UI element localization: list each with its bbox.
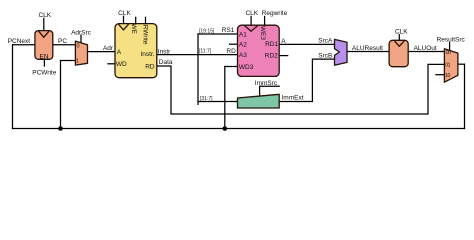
wire ImmSrc control L-stub [260, 86, 280, 96]
wire Instr 31:7 to Extend [198, 101, 238, 103]
svg-text:RD: RD [145, 63, 155, 70]
wire PCNext horizontal [13, 44, 35, 46]
wire WD stub [108, 63, 115, 65]
wire Instr 19:15 to A1 [198, 33, 238, 35]
clock triangle register file [245, 26, 258, 31]
svg-text:Regwrite: Regwrite [262, 10, 288, 17]
svg-text:CLK: CLK [245, 10, 258, 17]
svg-text:ALUResult: ALUResult [352, 45, 383, 52]
svg-text:Adr: Adr [103, 45, 114, 52]
svg-text:PC: PC [58, 38, 67, 45]
wire EN stem below PC [43, 59, 45, 66]
svg-text:CLK: CLK [118, 10, 131, 17]
svg-text:Instr.: Instr. [141, 51, 155, 58]
junction dot at WD3 column [223, 126, 228, 131]
svg-text:WD3: WD3 [239, 64, 254, 71]
svg-text:IRWrite: IRWrite [141, 23, 148, 45]
junction dot at AdrSrc column [58, 126, 63, 131]
wire ResultSrc control stem [449, 43, 451, 51]
wire bottom Result bus [13, 128, 465, 130]
svg-text:WD: WD [116, 61, 127, 68]
svg-text:[11:7]: [11:7] [199, 49, 212, 55]
svg-text:Instr: Instr [158, 48, 171, 55]
wire Instr bus memory RD to A3 [157, 54, 238, 56]
wire left vertical from Result bus up to PCNext [12, 45, 14, 129]
svg-text:A: A [117, 49, 122, 56]
wire PC to AdrSrc mux [53, 44, 76, 46]
svg-text:A1: A1 [239, 31, 247, 38]
wire RD2 stub [279, 55, 288, 57]
extend unit ImmExt (green) [238, 94, 280, 108]
svg-text:0: 0 [77, 44, 80, 50]
mux Result (trapezoid) [444, 49, 458, 82]
svg-text:EN: EN [39, 53, 48, 60]
svg-text:RD2: RD2 [265, 52, 278, 59]
register file (pink box) [238, 25, 280, 76]
svg-text:RS1: RS1 [222, 27, 235, 34]
wire IRWrite tick memory [145, 17, 147, 23]
wire result mux output stub [458, 63, 465, 65]
wire result mux input10 stub [436, 74, 445, 76]
svg-text:[31:7]: [31:7] [200, 96, 213, 102]
clock triangle ALUOut [394, 41, 404, 46]
svg-text:01: 01 [445, 63, 451, 69]
wire WD3 vertical from Result bus [224, 67, 226, 129]
svg-text:RD: RD [226, 48, 236, 55]
clock triangle memory [118, 24, 128, 30]
svg-text:CLK: CLK [38, 12, 51, 19]
wire CLK stem register file [250, 16, 252, 25]
svg-text:CLK: CLK [395, 28, 408, 35]
wire WD3 horizontal [225, 66, 238, 68]
wire Regwrite stem [264, 16, 266, 25]
svg-text:10: 10 [445, 73, 451, 79]
svg-text:PCWrite: PCWrite [32, 70, 56, 77]
clock triangle PC [39, 31, 49, 37]
svg-text:PCNext: PCNext [8, 38, 31, 45]
svg-text:00: 00 [446, 50, 452, 56]
svg-text:ALUOut: ALUOut [414, 45, 437, 52]
svg-text:A3: A3 [239, 52, 247, 59]
wire Adr from mux to memory [88, 51, 116, 53]
svg-text:AdrSrc: AdrSrc [71, 30, 92, 37]
register ALUOut (orange box) [389, 40, 408, 66]
wire CLK stem memory [123, 16, 125, 23]
svg-text:ImmExt: ImmExt [282, 95, 304, 102]
wire AdrSrc control stem [80, 35, 82, 43]
wire ImmExt output to SrcB [279, 59, 334, 101]
wire WE tick memory [135, 17, 137, 23]
svg-text:SrcA: SrcA [318, 38, 333, 45]
wire A2 stub [230, 43, 238, 45]
wire ALUOut reg to result mux input 00 [408, 51, 444, 53]
svg-text:A: A [281, 38, 286, 45]
wire Data from memory RD to result mux input 01 [157, 64, 445, 114]
register PC (orange box) [35, 31, 53, 60]
wire ALUResult ALU to ALUOut reg [347, 51, 389, 53]
svg-text:WE3: WE3 [259, 26, 266, 40]
ALU (purple) [335, 39, 348, 65]
svg-text:RD1: RD1 [265, 41, 278, 48]
svg-text:[19:15]: [19:15] [199, 28, 215, 34]
svg-text:SrcB: SrcB [318, 52, 332, 59]
svg-text:A2: A2 [239, 42, 247, 49]
svg-text:Data: Data [159, 59, 173, 66]
svg-text:ResultSrc: ResultSrc [437, 36, 466, 43]
svg-text:ImmSrc: ImmSrc [255, 80, 278, 87]
svg-text:1: 1 [76, 59, 79, 65]
mux AdrSrc (trapezoid) [75, 41, 87, 65]
wire AdrSrc mux input1 horizontal [61, 60, 76, 62]
wire Result right vertical [464, 64, 466, 128]
memory Instr / Data (yellow box) [115, 24, 157, 78]
wire Instr branch vertical [197, 34, 199, 104]
wire RD1 A to SrcA [279, 43, 334, 45]
wire CLK stem ALUOut reg [398, 35, 400, 41]
wire AdrSrc mux input1 vertical [60, 61, 62, 129]
wire CLK stem PC [43, 18, 45, 30]
svg-text:WE: WE [130, 24, 137, 35]
